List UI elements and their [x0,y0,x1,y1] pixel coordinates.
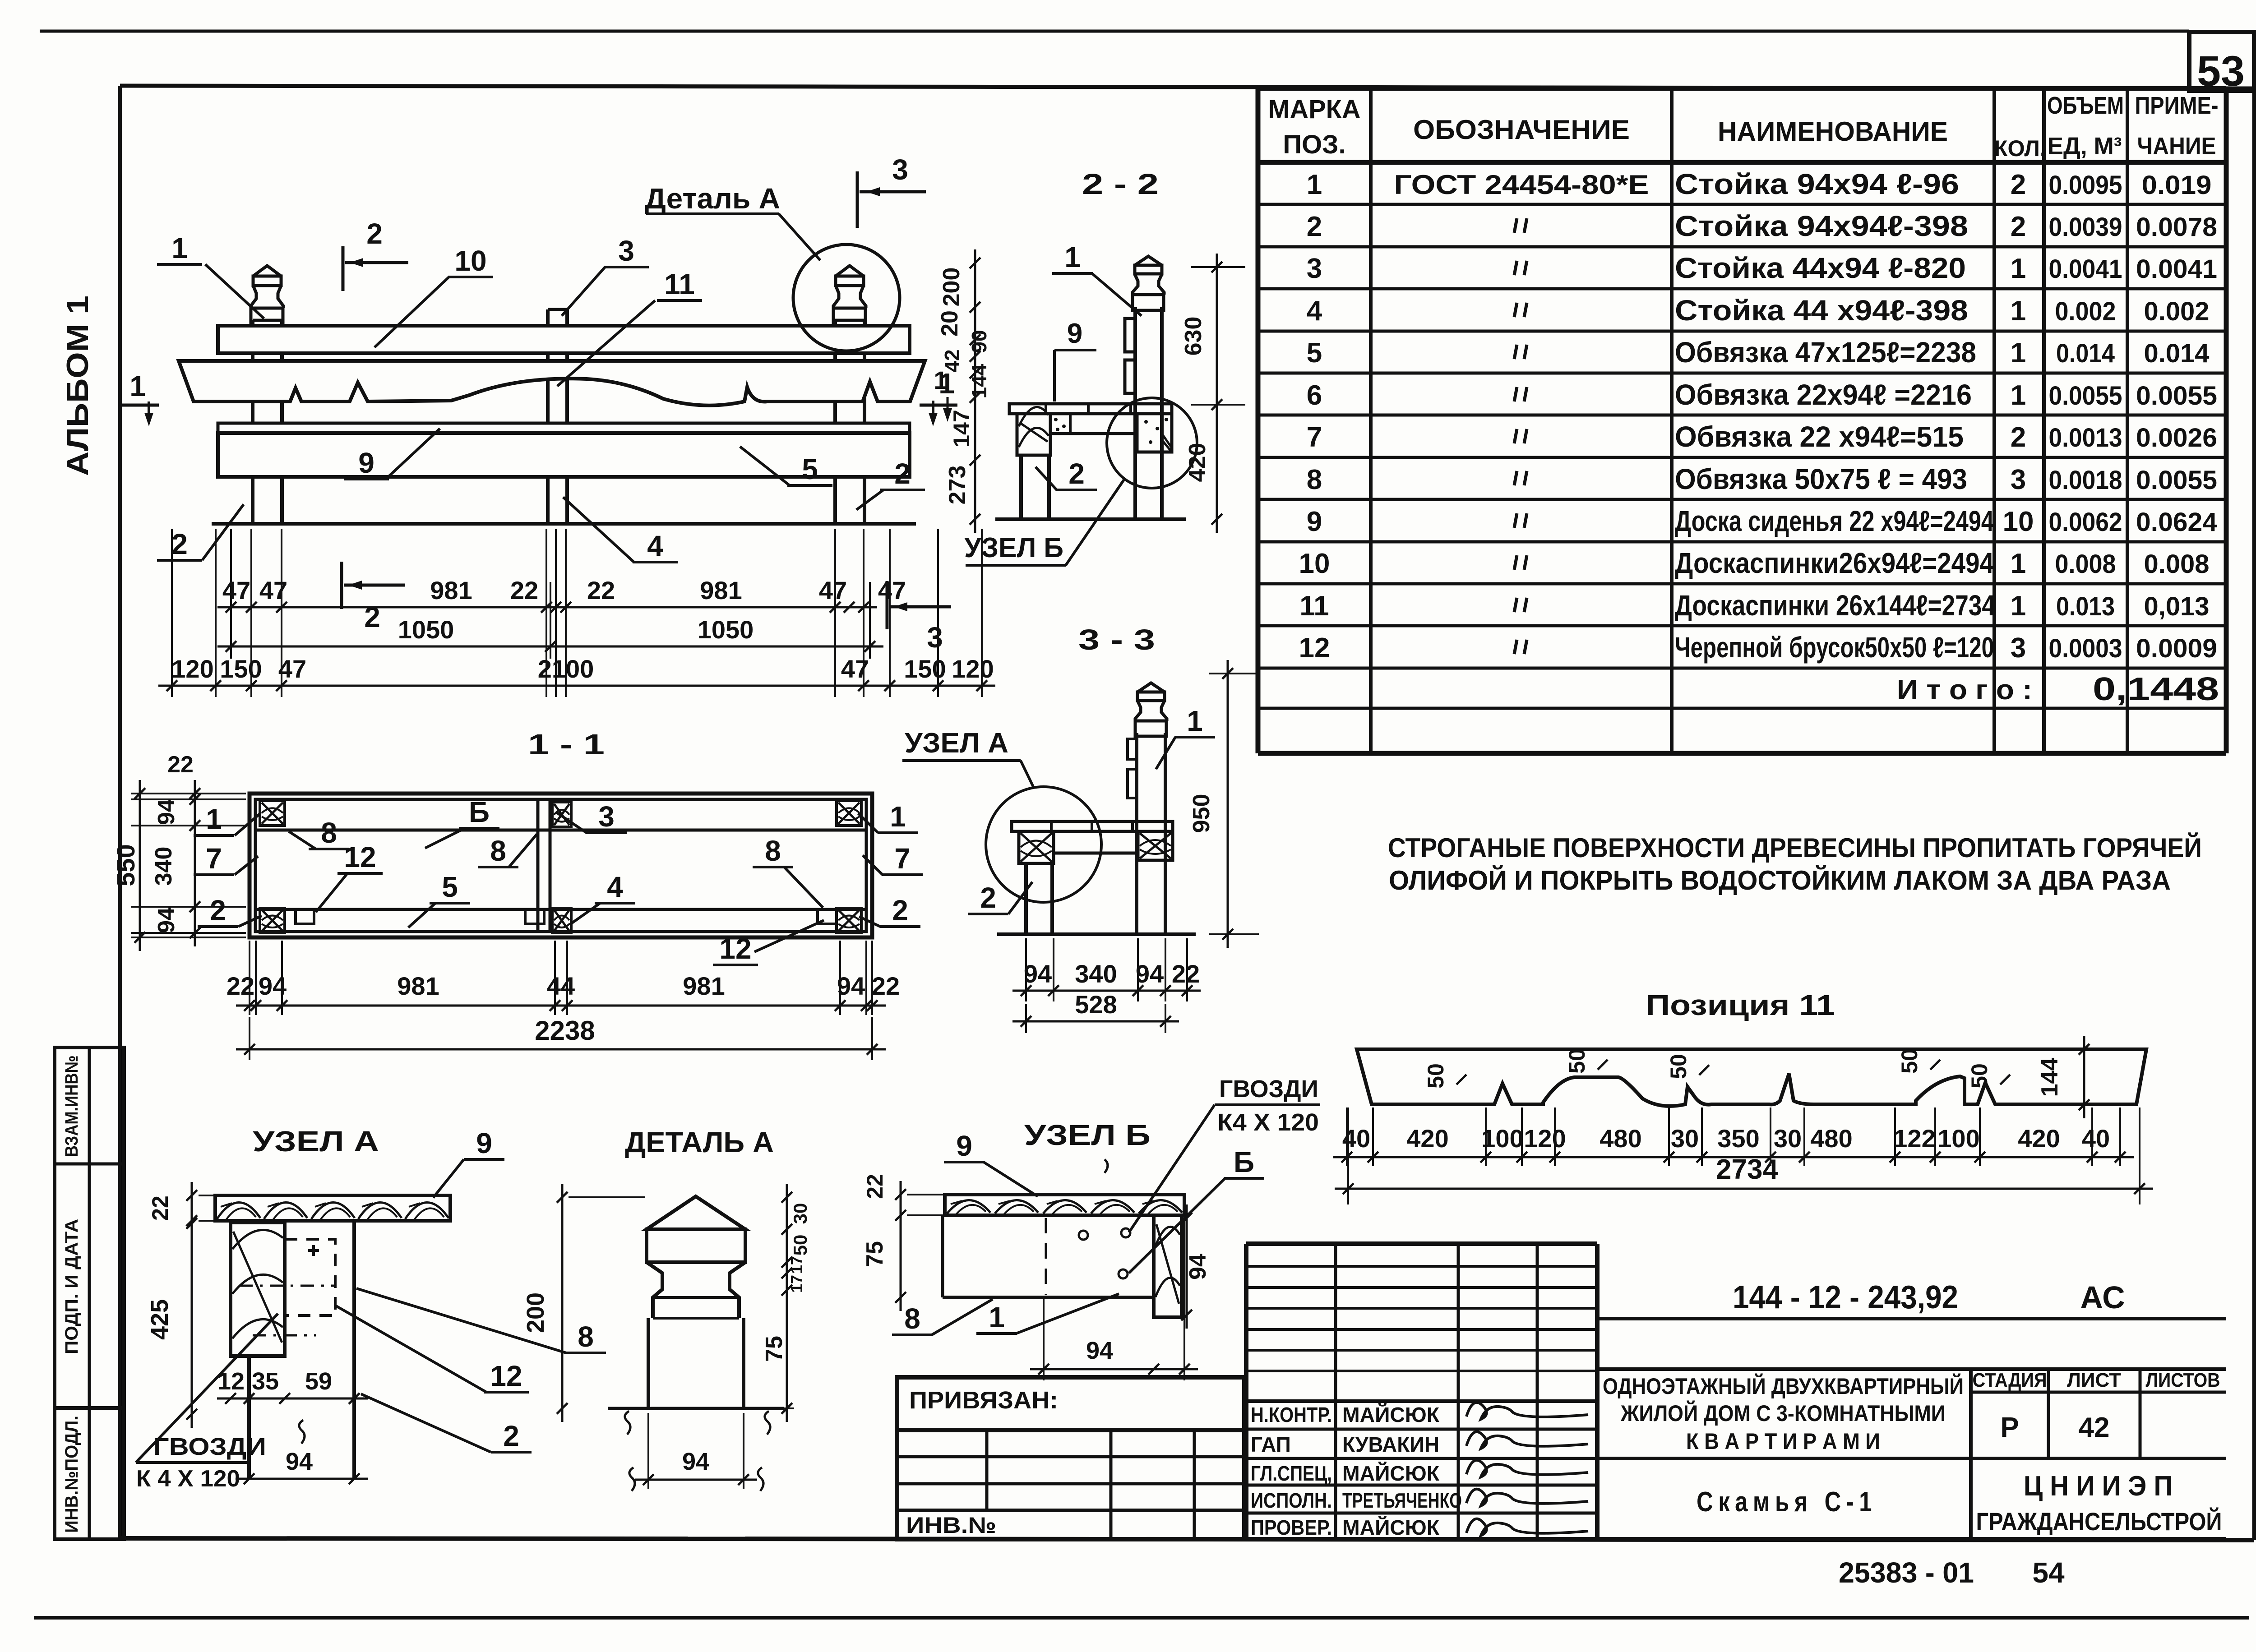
svg-text:СТРОГАНЫЕ ПОВЕРХНОСТИ ДРЕВЕСИН: СТРОГАНЫЕ ПОВЕРХНОСТИ ДРЕВЕСИНЫ ПРОПИТАТ… [1388,833,2202,863]
svg-text:480: 480 [1600,1124,1641,1153]
svg-text:9: 9 [1307,506,1322,537]
svg-text:0.0624: 0.0624 [2136,508,2217,537]
svg-text:Б: Б [469,796,490,828]
svg-text:0.0078: 0.0078 [2136,212,2217,242]
svg-text:ПОЗ.: ПОЗ. [1283,130,1345,159]
svg-text:420: 420 [1406,1124,1448,1153]
svg-text:2: 2 [892,894,908,927]
svg-text:30: 30 [790,1203,811,1224]
svg-text:144 - 12 - 243,92: 144 - 12 - 243,92 [1733,1279,1958,1315]
svg-text:1: 1 [2011,591,2026,622]
svg-text:200: 200 [522,1292,549,1333]
svg-text:8: 8 [321,817,337,849]
svg-text:1: 1 [129,370,146,402]
svg-text:47: 47 [259,576,287,605]
svg-text:550: 550 [111,844,140,886]
svg-text:94: 94 [1136,960,1164,988]
svg-text:МАЙСЮК: МАЙСЮК [1342,1462,1440,1485]
svg-text:200: 200 [938,268,965,307]
svg-text:3: 3 [927,621,943,654]
svg-text:0.014: 0.014 [2144,339,2210,368]
svg-text:1: 1 [206,803,222,835]
svg-text:МАЙСЮК: МАЙСЮК [1342,1516,1440,1539]
svg-text:К В А Р Т И Р А М И: К В А Р Т И Р А М И [1686,1429,1880,1454]
svg-text:144: 144 [967,364,991,398]
svg-text:20: 20 [937,310,963,337]
svg-text:50: 50 [790,1235,811,1256]
svg-text:Обвязка 22 х94ℓ=515: Обвязка 22 х94ℓ=515 [1675,420,1964,453]
svg-text:3: 3 [598,800,615,833]
svg-text:90: 90 [967,330,991,353]
svg-text:150: 150 [904,655,946,683]
svg-text:22: 22 [872,972,900,1000]
svg-text:Скамья С-1: Скамья С-1 [1697,1486,1877,1518]
svg-text:2 - 2: 2 - 2 [1082,168,1159,200]
svg-text:94: 94 [837,972,865,1000]
svg-text:340: 340 [151,847,177,886]
svg-text:УЗЕЛ А: УЗЕЛ А [905,728,1008,759]
svg-text:2: 2 [364,601,380,633]
svg-text:2734: 2734 [1716,1154,1778,1185]
svg-text:12: 12 [344,841,376,873]
svg-text:3: 3 [2011,464,2026,495]
svg-text:3: 3 [892,153,908,186]
svg-text:47: 47 [841,655,869,683]
svg-text:100: 100 [1481,1124,1523,1153]
svg-text:10: 10 [1299,548,1330,579]
svg-text:17: 17 [787,1275,806,1293]
svg-text:47: 47 [878,576,906,605]
svg-text:94: 94 [153,907,180,933]
svg-text:Б: Б [1234,1146,1254,1178]
svg-text:ЛИСТ: ЛИСТ [2067,1369,2121,1391]
svg-text:94: 94 [153,799,180,825]
svg-text:75: 75 [761,1336,787,1362]
svg-text:НАИМЕНОВАНИЕ: НАИМЕНОВАНИЕ [1718,116,1948,147]
svg-text:АС: АС [2080,1280,2125,1315]
svg-text:ТРЕТЬЯЧЕНКО: ТРЕТЬЯЧЕНКО [1342,1489,1462,1512]
svg-text:Обвязка 47х125ℓ=2238: Обвязка 47х125ℓ=2238 [1675,336,1976,369]
svg-text:1: 1 [1064,241,1081,273]
svg-text:273: 273 [944,466,971,505]
svg-text:4: 4 [647,530,663,562]
svg-text:7: 7 [206,842,222,875]
svg-text:2100: 2100 [538,655,594,683]
svg-text:420: 420 [1184,443,1211,482]
svg-text:ОБОЗНАЧЕНИЕ: ОБОЗНАЧЕНИЕ [1413,115,1630,145]
svg-text:50: 50 [1564,1048,1590,1074]
svg-text:0.019: 0.019 [2142,171,2212,200]
svg-text:КУВАКИН: КУВАКИН [1342,1433,1439,1456]
svg-text:8: 8 [765,835,781,867]
svg-text:22: 22 [510,576,538,605]
svg-text:ИСПОЛН.: ИСПОЛН. [1251,1489,1332,1512]
svg-text:0.0018: 0.0018 [2049,466,2122,495]
svg-text:1: 1 [1307,169,1322,200]
svg-text:94: 94 [286,1448,313,1475]
svg-text:ИНВ.№ПОДЛ.: ИНВ.№ПОДЛ. [62,1416,82,1533]
svg-text:Стойка 94х94 ℓ-96: Стойка 94х94 ℓ-96 [1675,168,1959,200]
svg-text:2: 2 [2011,169,2026,200]
svg-text:94: 94 [1185,1254,1211,1280]
svg-text:3: 3 [2011,632,2026,664]
svg-text:147: 147 [949,410,974,447]
svg-text:1: 1 [2011,295,2026,327]
svg-text:Доскаспинки 26х144ℓ=2734: Доскаспинки 26х144ℓ=2734 [1675,589,1995,622]
svg-text:АЛЬБОМ 1: АЛЬБОМ 1 [60,295,95,476]
svg-text:50: 50 [1423,1063,1448,1089]
svg-text:47: 47 [819,576,847,605]
svg-text:Доска сиденья 22 х94ℓ=2494: Доска сиденья 22 х94ℓ=2494 [1675,505,1994,537]
svg-text:ЛИСТОВ: ЛИСТОВ [2146,1369,2220,1391]
svg-text:Черепной брусок50х50 ℓ=120: Черепной брусок50х50 ℓ=120 [1675,631,1994,664]
svg-text:2: 2 [366,217,383,250]
svg-text:ПРИВЯЗАН:: ПРИВЯЗАН: [909,1387,1058,1414]
svg-text:МАЙСЮК: МАЙСЮК [1342,1403,1440,1426]
svg-text:350: 350 [1717,1124,1759,1153]
svg-text:ДЕТАЛЬ А: ДЕТАЛЬ А [625,1126,774,1158]
svg-text:К4 Х 120: К4 Х 120 [1217,1109,1319,1136]
svg-text:94: 94 [1024,960,1052,988]
svg-text:0.0062: 0.0062 [2049,508,2122,537]
svg-text:ПРИМЕ-: ПРИМЕ- [2135,92,2219,119]
svg-text:0.0003: 0.0003 [2049,634,2122,663]
svg-text:9: 9 [358,447,374,479]
svg-text:144: 144 [2037,1058,2063,1097]
svg-text:1050: 1050 [398,615,454,644]
svg-text:Деталь А: Деталь А [645,182,780,215]
svg-text:120: 120 [171,655,213,683]
svg-text:5: 5 [1307,337,1322,369]
svg-text:ГЛ.СПЕЦ,: ГЛ.СПЕЦ, [1251,1462,1332,1485]
svg-text:8: 8 [578,1320,594,1353]
svg-text:0.0041: 0.0041 [2049,254,2122,284]
svg-text:ОЛИФОЙ И ПОКРЫТЬ ВОДОСТОЙКИМ Л: ОЛИФОЙ И ПОКРЫТЬ ВОДОСТОЙКИМ ЛАКОМ ЗА ДВ… [1389,865,2171,895]
svg-text:ГОСТ 24454-80*Е: ГОСТ 24454-80*Е [1394,170,1649,200]
svg-text:40: 40 [2082,1124,2110,1153]
svg-text:0.014: 0.014 [2056,339,2115,368]
svg-text:120: 120 [952,655,994,683]
svg-text:Обвязка 22х94ℓ =2216: Обвязка 22х94ℓ =2216 [1675,378,1972,411]
svg-text:22: 22 [148,1195,173,1221]
svg-text:УЗЕЛ Б: УЗЕЛ Б [964,532,1063,563]
svg-text:12: 12 [217,1368,245,1395]
svg-text:2: 2 [2011,211,2026,242]
svg-text:0.0013: 0.0013 [2049,423,2122,452]
svg-text:0.013: 0.013 [2056,592,2115,621]
svg-text:75: 75 [862,1241,888,1267]
svg-text:17: 17 [787,1256,806,1274]
svg-text:2: 2 [503,1420,519,1452]
svg-text:0.0055: 0.0055 [2049,381,2122,411]
svg-text:ВЗАМ.ИНВ№: ВЗАМ.ИНВ№ [62,1056,82,1157]
svg-text:981: 981 [430,576,472,605]
svg-text:35: 35 [252,1368,279,1395]
svg-text:50: 50 [1897,1048,1922,1074]
svg-text:0,1448: 0,1448 [2093,671,2219,707]
svg-text:12: 12 [719,932,751,965]
svg-text:12: 12 [490,1360,522,1392]
svg-text:2: 2 [980,881,996,914]
svg-text:425: 425 [146,1299,173,1340]
svg-text:528: 528 [1075,990,1117,1019]
svg-text:30: 30 [1671,1124,1699,1153]
svg-text:1: 1 [171,232,188,264]
svg-text:3 - 3: 3 - 3 [1078,623,1155,656]
svg-text:44: 44 [547,972,575,1000]
svg-text:0.0041: 0.0041 [2136,254,2217,284]
svg-text:2: 2 [210,894,226,927]
svg-text:47: 47 [222,576,250,605]
svg-text:2: 2 [894,457,911,490]
svg-text:2: 2 [171,528,188,560]
svg-text:10: 10 [454,245,486,277]
svg-text:94: 94 [682,1448,709,1475]
svg-text:100: 100 [1937,1124,1979,1153]
svg-text:1: 1 [2011,337,2026,369]
svg-text:150: 150 [220,655,262,683]
svg-text:8: 8 [904,1302,920,1335]
svg-text:22: 22 [587,576,615,605]
svg-text:ОДНОЭТАЖНЫЙ ДВУХКВАРТИРНЫЙ: ОДНОЭТАЖНЫЙ ДВУХКВАРТИРНЫЙ [1603,1373,1964,1399]
svg-text:1: 1 [934,366,948,394]
svg-text:1: 1 [890,800,906,833]
svg-text:1: 1 [2011,253,2026,284]
svg-text:340: 340 [1075,960,1117,988]
svg-text:ГВОЗДИ: ГВОЗДИ [153,1433,266,1460]
svg-text:ПОДП. И ДАТА: ПОДП. И ДАТА [62,1219,82,1354]
svg-text:Обвязка 50х75 ℓ = 493: Обвязка 50х75 ℓ = 493 [1675,463,1967,495]
svg-text:981: 981 [397,972,439,1000]
svg-text:59: 59 [305,1368,332,1395]
svg-text:1050: 1050 [698,615,754,644]
svg-text:МАРКА: МАРКА [1268,95,1361,124]
svg-text:50: 50 [1666,1054,1691,1079]
svg-text:3: 3 [1307,253,1322,284]
svg-text:981: 981 [700,576,742,605]
svg-text:22: 22 [167,752,194,778]
svg-text:9: 9 [956,1130,972,1162]
svg-text:0.0055: 0.0055 [2136,381,2217,411]
svg-text:0.0039: 0.0039 [2049,212,2122,242]
svg-text:2: 2 [1307,211,1322,242]
svg-text:42: 42 [2079,1412,2110,1443]
svg-text:Ц Н И И Э П: Ц Н И И Э П [2024,1471,2173,1502]
svg-text:1: 1 [989,1301,1005,1334]
svg-text:Н.КОНТР.: Н.КОНТР. [1251,1403,1332,1426]
svg-text:СТАДИЯ: СТАДИЯ [1973,1369,2047,1391]
svg-text:122: 122 [1893,1124,1935,1153]
svg-text:0.0026: 0.0026 [2136,423,2217,452]
svg-text:22: 22 [227,972,254,1000]
svg-text:1 - 1: 1 - 1 [528,728,605,761]
svg-text:1: 1 [2011,548,2026,579]
svg-text:8: 8 [1307,464,1322,495]
svg-text:0.0055: 0.0055 [2136,466,2217,495]
svg-text:ОБЪЕМ: ОБЪЕМ [2047,92,2124,119]
svg-text:950: 950 [1188,794,1215,833]
svg-text:ГАП: ГАП [1251,1433,1291,1456]
svg-text:22: 22 [862,1174,888,1199]
svg-text:2: 2 [2011,422,2026,453]
svg-text:0.002: 0.002 [2144,297,2210,326]
svg-text:47: 47 [278,655,306,683]
svg-text:Стойка 44х94 ℓ-820: Стойка 44х94 ℓ-820 [1675,252,1966,284]
svg-text:11: 11 [664,268,695,300]
svg-text:4: 4 [1307,295,1322,327]
svg-text:4: 4 [607,871,623,903]
svg-text:1: 1 [1187,705,1203,737]
svg-text:630: 630 [1180,317,1207,356]
svg-text:5: 5 [802,453,818,485]
svg-text:3: 3 [618,235,634,267]
svg-text:Доскаспинки26х94ℓ=2494: Доскаспинки26х94ℓ=2494 [1675,547,1994,579]
svg-text:9: 9 [1067,318,1082,349]
svg-text:К 4 Х 120: К 4 Х 120 [136,1466,240,1492]
svg-text:КОЛ.: КОЛ. [1994,136,2046,161]
svg-text:0.008: 0.008 [2055,549,2116,579]
svg-text:Стойка 44 х94ℓ-398: Стойка 44 х94ℓ-398 [1675,294,1968,327]
svg-text:9: 9 [476,1127,492,1159]
svg-text:7: 7 [1307,422,1322,453]
svg-text:25383 - 01: 25383 - 01 [1839,1556,1974,1589]
svg-text:30: 30 [1774,1124,1802,1153]
svg-text:94: 94 [1086,1337,1113,1364]
svg-text:ЧАНИЕ: ЧАНИЕ [2137,133,2216,160]
svg-text:Стойка 94х94ℓ-398: Стойка 94х94ℓ-398 [1675,210,1968,242]
svg-text:1: 1 [2011,380,2026,411]
svg-text:Р: Р [2000,1412,2019,1443]
svg-text:10: 10 [2003,506,2034,537]
svg-text:420: 420 [2018,1124,2060,1153]
svg-text:2: 2 [1068,457,1085,490]
svg-text:54: 54 [2032,1556,2065,1589]
svg-text:22: 22 [1172,960,1200,988]
svg-text:50: 50 [1967,1063,1992,1089]
svg-text:ПРОВЕР.: ПРОВЕР. [1251,1516,1332,1539]
svg-text:0.0009: 0.0009 [2136,634,2217,663]
svg-text:480: 480 [1810,1124,1852,1153]
svg-text:0.002: 0.002 [2055,297,2116,326]
svg-text:5: 5 [442,871,458,903]
svg-text:11: 11 [1299,591,1329,622]
svg-text:7: 7 [894,842,911,875]
svg-text:981: 981 [683,972,725,1000]
svg-text:УЗЕЛ Б: УЗЕЛ Б [1024,1119,1151,1151]
svg-text:6: 6 [1307,380,1322,411]
svg-text:ЕД, М³: ЕД, М³ [2048,133,2122,160]
svg-text:2238: 2238 [535,1015,595,1046]
svg-text:94: 94 [259,972,287,1000]
svg-text:12: 12 [1299,632,1330,664]
svg-text:0.008: 0.008 [2144,549,2210,579]
svg-text:УЗЕЛ А: УЗЕЛ А [253,1125,379,1158]
svg-text:0.0095: 0.0095 [2049,171,2122,200]
svg-text:120: 120 [1524,1124,1566,1153]
svg-text:0,013: 0,013 [2144,592,2210,621]
svg-text:ГРАЖДАНСЕЛЬСТРОЙ: ГРАЖДАНСЕЛЬСТРОЙ [1976,1507,2222,1536]
svg-text:ГВОЗДИ: ГВОЗДИ [1219,1075,1318,1103]
svg-text:И т о г о :: И т о г о : [1897,674,2032,706]
svg-text:Позиция 11: Позиция 11 [1646,989,1835,1021]
svg-text:ЖИЛОЙ ДОМ С 3-КОМНАТНЫМИ: ЖИЛОЙ ДОМ С 3-КОМНАТНЫМИ [1620,1400,1946,1426]
svg-text:ИНВ.№: ИНВ.№ [906,1513,996,1538]
svg-text:8: 8 [490,835,506,867]
